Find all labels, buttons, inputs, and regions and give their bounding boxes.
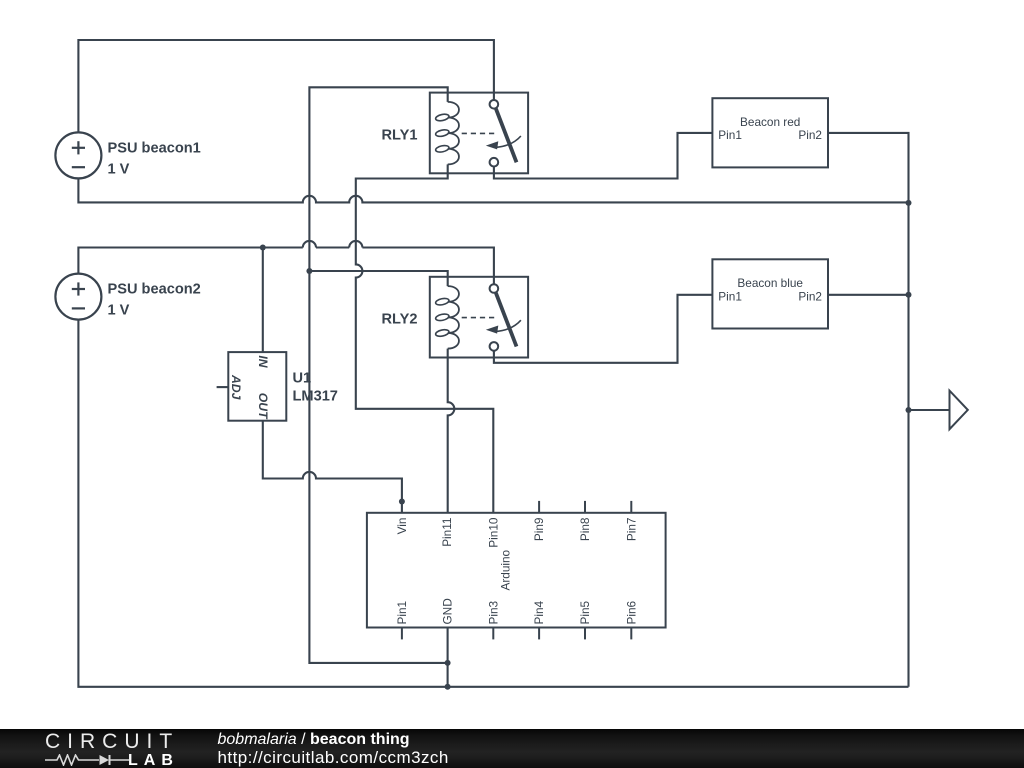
pin stub Pin3: [492, 628, 494, 640]
svg-text:Pin3: Pin3: [486, 600, 500, 624]
svg-text:Pin1: Pin1: [395, 601, 409, 625]
svg-text:1 V: 1 V: [108, 303, 130, 319]
svg-text:Pin2: Pin2: [798, 128, 822, 142]
junction: [906, 407, 912, 413]
svg-text:PSU beacon2: PSU beacon2: [108, 282, 201, 298]
label PSU beacon2 1 V: [108, 282, 201, 319]
svg-text:Pin7: Pin7: [624, 518, 638, 542]
voltage source V2 PSU beacon2: [55, 274, 101, 320]
junction: [906, 200, 912, 206]
wire: [494, 295, 713, 363]
svg-text:Pin6: Pin6: [624, 600, 638, 624]
relay RLY1: [430, 93, 528, 174]
svg-text:Pin8: Pin8: [578, 517, 592, 541]
title text: [218, 731, 410, 749]
svg-text:LM317: LM317: [293, 389, 338, 405]
label U1 LM317: [293, 371, 338, 405]
wire: [494, 133, 713, 179]
box Beacon blue: [712, 259, 828, 328]
pin stub Pin8: [584, 501, 586, 513]
wire: [356, 164, 494, 512]
svg-text:Pin5: Pin5: [578, 600, 592, 624]
wire: [78, 40, 494, 132]
svg-text:RLY2: RLY2: [382, 312, 418, 328]
svg-text:Beacon red: Beacon red: [740, 115, 800, 129]
pin stub Pin9: [538, 501, 540, 513]
pin stub Pin6: [630, 628, 632, 640]
junction: [906, 292, 912, 298]
svg-text:U1: U1: [293, 371, 312, 387]
junction: [260, 245, 266, 251]
wire: [448, 349, 455, 513]
junction: [445, 660, 451, 666]
svg-text:1 V: 1 V: [108, 162, 130, 178]
wire: [828, 133, 909, 687]
svg-text:Arduino: Arduino: [499, 549, 513, 590]
CircuitLab logo: [45, 730, 179, 754]
svg-text:PSU beacon1: PSU beacon1: [108, 141, 201, 157]
net flag antenna: [950, 391, 968, 430]
wire: [78, 320, 908, 687]
svg-text:Pin11: Pin11: [440, 518, 454, 547]
pin stub Pin7: [630, 501, 632, 513]
svg-text:Pin10: Pin10: [486, 517, 500, 548]
pin stub Pin4: [538, 628, 540, 640]
junction: [445, 684, 451, 690]
svg-text:ADJ: ADJ: [229, 374, 243, 400]
junction: [399, 499, 405, 505]
svg-text:Pin2: Pin2: [798, 289, 822, 303]
svg-text:Beacon blue: Beacon blue: [737, 276, 803, 290]
box Beacon red: [712, 98, 828, 167]
voltage source V1 PSU beacon1: [55, 132, 101, 178]
wire: [447, 628, 449, 687]
wire: [262, 248, 264, 353]
svg-text:OUT: OUT: [256, 393, 270, 420]
wire: [309, 87, 447, 663]
svg-text:Pin1: Pin1: [718, 289, 742, 303]
wire: [263, 421, 402, 513]
wire: [78, 178, 908, 202]
label PSU beacon1 1 V: [108, 141, 201, 178]
svg-text:Pin4: Pin4: [532, 600, 546, 624]
svg-text:GND: GND: [441, 598, 455, 624]
relay RLY2: [430, 277, 528, 358]
wire: [828, 294, 909, 296]
pin stub Pin5: [584, 628, 586, 640]
wire: [309, 271, 447, 286]
wire: [217, 386, 229, 388]
IC U1 LM317: [228, 352, 286, 421]
svg-text:Pin1: Pin1: [718, 128, 742, 142]
IC Arduino: [367, 513, 666, 628]
svg-text:IN: IN: [256, 355, 270, 368]
wire: [909, 409, 950, 411]
svg-text:Vin: Vin: [395, 518, 409, 535]
svg-text:RLY1: RLY1: [382, 127, 418, 143]
svg-text:Pin9: Pin9: [532, 518, 546, 542]
wire: [78, 241, 494, 284]
pin stub Pin1: [401, 628, 403, 640]
junction: [306, 268, 312, 274]
